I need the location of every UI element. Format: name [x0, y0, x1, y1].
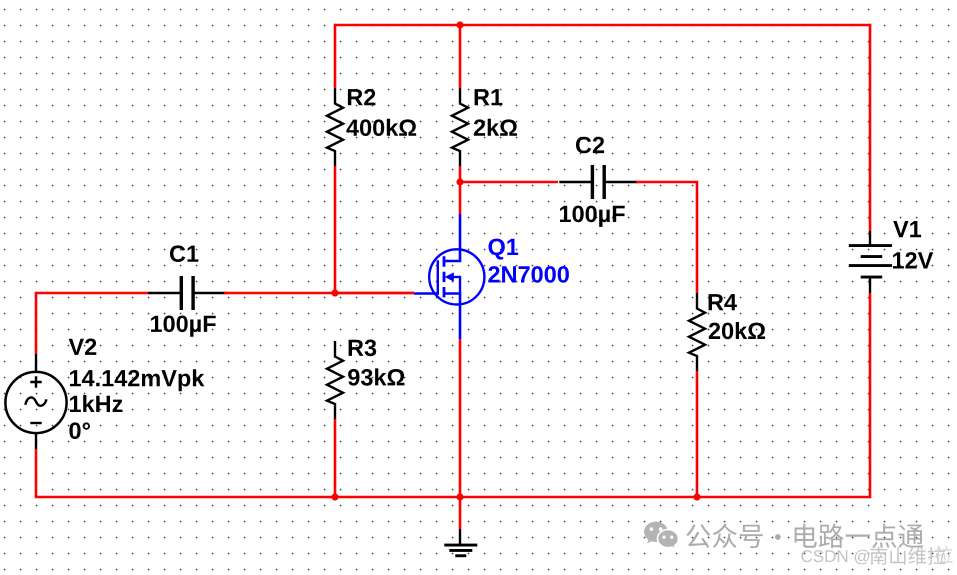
node gate junction — [331, 289, 338, 296]
capacitor C1 — [148, 276, 227, 310]
label V2 amplitude — [70, 369, 204, 391]
label R3 — [349, 340, 377, 357]
wire V1 bottom to ground bus — [869, 293, 872, 498]
resistor R4 — [689, 293, 705, 371]
label R3 value — [348, 368, 404, 385]
label R2 — [348, 89, 376, 105]
battery V1 — [849, 231, 892, 293]
label R2 value — [346, 119, 416, 136]
label R1 value — [474, 119, 517, 136]
label C1 — [170, 245, 198, 262]
resistor R1 — [452, 88, 468, 166]
wire R2 branch top — [334, 24, 337, 88]
label R4 value — [709, 322, 765, 339]
wire C2 to R4 top — [636, 182, 697, 293]
ground — [444, 529, 477, 557]
label V2 frequency — [70, 395, 123, 412]
label R1 — [475, 89, 503, 105]
node R4 bottom — [693, 493, 700, 500]
label V2 — [69, 339, 97, 355]
label V1 value — [893, 252, 933, 268]
label C2 value — [560, 206, 625, 227]
wire R1 top — [459, 25, 462, 88]
label C2 — [576, 137, 604, 154]
wire top bus — [335, 24, 870, 27]
wire right bus down to V1 — [869, 24, 872, 231]
label Q1 part number — [488, 266, 569, 283]
wire ground stub — [459, 497, 462, 529]
wire R1 bottom to drain node — [459, 166, 462, 214]
node R3 bottom — [331, 493, 338, 500]
wire V2 top riser — [35, 292, 38, 354]
label R4 — [709, 294, 737, 310]
watermark text CSDN @南山维拉 — [801, 546, 952, 565]
capacitor C2 — [559, 165, 638, 199]
wire V2 bottom and ground bus — [35, 449, 870, 497]
wire drain node to C2 — [461, 181, 558, 184]
node source column bottom — [456, 493, 463, 500]
wire C1 row left — [36, 292, 150, 295]
node top of R1 column — [456, 21, 463, 28]
label C1 value — [151, 316, 216, 337]
label Q1 — [489, 239, 519, 260]
watermark wechat icon — [644, 522, 678, 550]
wire R3 bottom — [334, 419, 337, 497]
wire R2 bottom to gate junction — [334, 166, 337, 293]
wire gate — [335, 292, 414, 295]
wire C1 to gate — [224, 292, 414, 295]
resistor R2 — [327, 88, 343, 166]
node drain junction — [456, 178, 463, 185]
transistor Q1 — [414, 214, 484, 339]
label V2 phase — [69, 422, 90, 439]
source V2 — [5, 354, 66, 449]
resistor R3 — [327, 341, 343, 419]
wire source down to bus — [459, 339, 462, 497]
label V1 — [893, 221, 921, 237]
watermark text 公众号：电路一点通 — [686, 524, 923, 549]
wire R4 bottom — [696, 371, 699, 497]
